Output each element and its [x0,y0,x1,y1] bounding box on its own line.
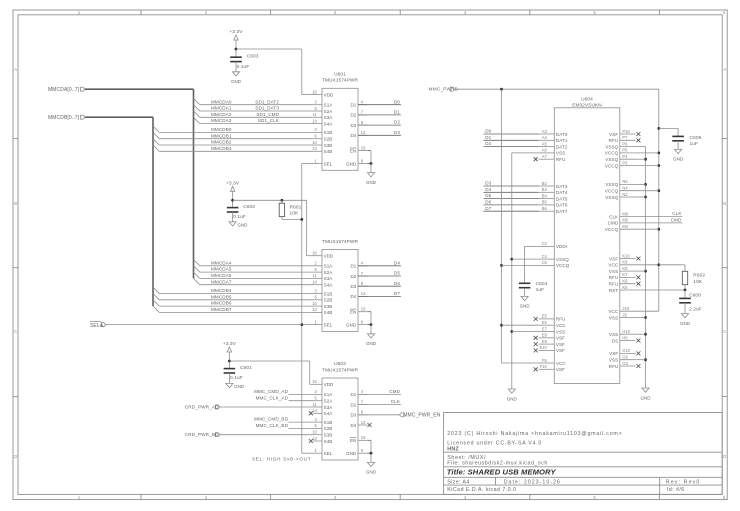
svg-text:D4: D4 [350,294,356,299]
wire chip2 GND [368,324,372,326]
wire bus entry MMCDB5 [153,294,159,300]
resistor R601 [281,199,284,202]
svg-text:P3: P3 [622,160,628,165]
svg-text:D7: D7 [485,206,491,211]
U604 pin E10 VSF [539,349,555,351]
ground U604 left VSS [507,389,517,401]
svg-text:16: 16 [312,89,317,94]
svg-text:N2: N2 [622,192,628,197]
wire left VSS rail [511,153,513,389]
svg-text:GND: GND [507,396,517,401]
svg-text:B2: B2 [542,181,548,186]
svg-text:S1B: S1B [324,130,333,135]
svg-text:CLK: CLK [672,211,682,216]
junction VSS E7 [510,330,513,333]
svg-text:M4: M4 [622,224,628,229]
wire right VSS rail [645,147,647,388]
U604 pin B6 DAT7 [539,210,555,212]
wire chip1 GND [368,163,372,165]
svg-text:13: 13 [312,307,317,312]
wire node D3 to U604 [484,185,539,187]
svg-text:P10: P10 [622,129,630,134]
svg-text:VSS: VSS [609,358,618,363]
wire U603 D2 to node CLK [358,404,401,406]
svg-text:DAT6: DAT6 [556,203,568,208]
U604 pin H10 VSS [620,333,636,335]
svg-text:E5: E5 [542,314,548,319]
svg-text:S2B: S2B [324,298,333,303]
svg-text:J5: J5 [622,312,627,317]
wire VSS pin to rail [636,359,646,361]
svg-text:VSF: VSF [556,367,565,372]
wire node D0 to U604 [484,133,539,135]
svg-text:VSF: VSF [556,348,565,353]
U604 pin N4 VCCQ [620,190,636,192]
svg-text:D4: D4 [350,423,356,428]
wire VCCQ to rail [636,165,659,167]
svg-text:S4B: S4B [324,149,333,154]
svg-text:11: 11 [313,112,318,117]
svg-text:1uF: 1uF [536,287,545,293]
svg-text:D1: D1 [394,110,400,115]
svg-text:S4B: S4B [324,310,333,315]
wire bus MMCDB horizontal [85,116,153,118]
svg-text:B6: B6 [542,206,548,211]
svg-text:VCCQ: VCCQ [605,163,619,168]
svg-text:D2: D2 [350,402,356,407]
capacitor C601 [224,365,253,381]
svg-text:K5: K5 [622,285,628,290]
node MMC_PWR_EN output label [400,413,404,417]
no-connect U603 S4B [309,439,313,443]
junction VCC rail y190.7 [657,189,660,192]
U604 pin M6 CLK [620,216,636,218]
svg-text:DAT7: DAT7 [556,209,568,214]
svg-text:G5: G5 [622,355,628,360]
svg-text:P7: P7 [622,135,628,140]
ground C604 [520,296,530,308]
svg-text:GND: GND [366,470,376,475]
svg-text:VCC: VCC [556,323,566,328]
svg-text:TMUX1574PWR: TMUX1574PWR [322,239,358,245]
capacitor C604 [519,281,548,293]
U604 pin P5 VCCQ [620,152,636,154]
svg-text:MMCDB1: MMCDB1 [211,133,232,138]
ground chip3 [366,453,376,475]
svg-text:10: 10 [312,140,317,145]
svg-text:MMCDB0: MMCDB0 [211,127,232,132]
wire bus MMCDA vertical [193,89,195,278]
wire U601 D3 to node D2 [358,124,401,126]
junction VSS rail y184.4 [644,183,647,186]
svg-text:VCC: VCC [608,309,618,314]
svg-text:S4A: S4A [324,411,333,416]
svg-text:C603: C603 [247,54,259,60]
svg-text:K10: K10 [622,253,630,258]
svg-text:Size: A4: Size: A4 [447,479,469,485]
svg-text:MMCDA6: MMCDA6 [211,273,232,278]
U604 pin K7 RFU [620,276,636,278]
svg-text:12: 12 [361,291,366,296]
svg-text:GND: GND [346,322,357,327]
wire bus MMCDA horizontal [85,88,194,90]
wire chip3 GND [368,452,372,454]
ground C602 [229,222,247,228]
svg-text:VCCQ: VCCQ [556,263,570,268]
junction MMC_PWRD to left VCC rail [500,88,503,91]
svg-text:D5: D5 [394,271,400,276]
wire chip1 EN down [368,150,372,152]
U604 pin B5 DAT6 [539,204,555,206]
wire left VCC rail [501,89,503,363]
wire MMC_CMD_BD [289,421,313,423]
wire bus entry MMCDB6 [153,300,159,306]
svg-text:K6: K6 [622,279,628,284]
U604 pin F10 VSF [539,368,555,370]
svg-text:S1B: S1B [324,420,333,425]
svg-text:B: B [723,201,726,206]
U604 pin K8 VSS [620,270,636,272]
svg-text:A5: A5 [542,141,548,146]
no-connect U604 E8 [534,336,538,340]
svg-text:GND: GND [237,223,247,228]
junction VSSQ C4 [510,258,513,261]
wire U601 D1 to node D0 [358,104,401,106]
U604 pin E9 VSF [539,343,555,345]
svg-text:MMC_CLK_BD: MMC_CLK_BD [256,423,289,428]
U604 pin A3 DAT0 [539,133,555,135]
svg-text:EN: EN [350,310,356,315]
svg-text:MMCDA7: MMCDA7 [211,279,232,284]
svg-text:P5: P5 [622,148,628,153]
wire CRD_PWR_AD [220,406,313,408]
svg-text:E10: E10 [540,345,548,350]
svg-text:CLK: CLK [609,214,618,219]
svg-text:10K: 10K [693,279,703,285]
U604 pin A6 VSS [539,152,555,154]
U604 pin M5 CMD [620,222,636,224]
ground C608 [680,314,690,326]
svg-text:K9: K9 [622,260,628,265]
svg-text:12: 12 [361,130,366,135]
svg-text:MMCDA5: MMCDA5 [211,267,232,272]
svg-text:13: 13 [312,146,317,151]
wire to C608 [684,290,686,298]
svg-text:E6: E6 [542,320,548,325]
U604 pin E6 VCC [539,324,555,326]
svg-text:2.2uF: 2.2uF [689,307,702,313]
svg-text:SD1_CLK: SD1_CLK [258,118,280,123]
svg-text:VSF: VSF [556,336,565,341]
svg-text:SEL: SEL [324,161,333,166]
svg-text:G3: G3 [622,361,628,366]
no-connect U604 K6 [636,282,640,286]
svg-text:MMC_CMD_BD: MMC_CMD_BD [254,417,289,422]
svg-text:S3B: S3B [324,433,333,438]
svg-text:GND: GND [234,384,244,389]
wire to VSS E7 [512,331,539,333]
svg-text:K8: K8 [622,266,628,271]
svg-text:10: 10 [312,301,317,306]
junction C601 +3.3V [228,360,231,363]
wire VCC K9 to rail [636,264,659,266]
no-connect U604 P10 [636,132,640,136]
junction VCC rail y165.5 [657,164,660,167]
wire U602 D1 to node D4 [358,265,401,267]
svg-text:EN: EN [350,438,356,443]
svg-text:CRD_PWR_BD: CRD_PWR_BD [185,432,220,437]
svg-text:Licensed under CC-BY-SA V4.0: Licensed under CC-BY-SA V4.0 [447,440,542,446]
svg-text:MMCDB4: MMCDB4 [211,288,232,293]
svg-text:S1A: S1A [324,264,333,269]
svg-text:D0: D0 [394,99,400,104]
svg-text:16: 16 [312,251,317,256]
wire bus entry MMCDB1 [153,132,159,138]
svg-text:DAT0: DAT0 [556,132,568,137]
svg-text:DAT5: DAT5 [556,196,568,201]
svg-text:GND: GND [640,395,650,400]
svg-text:D4: D4 [350,133,356,138]
svg-text:10K: 10K [290,211,300,217]
no-connect U604 H5 [636,339,640,343]
svg-text:Title: SHARED USB MEMORY: Title: SHARED USB MEMORY [447,468,557,477]
svg-text:MMCDB[0..7]: MMCDB[0..7] [48,115,80,121]
svg-text:GND: GND [520,304,530,309]
svg-text:D3: D3 [350,123,356,128]
svg-text:S3B: S3B [324,304,333,309]
wire bus entry MMCDB4 [153,287,159,293]
wire to VCCQ C6 [502,264,539,266]
svg-text:D3: D3 [394,130,400,135]
wire U601 D2 to node D1 [358,114,401,116]
svg-text:VSSQ: VSSQ [605,182,618,187]
wire MMC_CLK_AD [289,400,313,402]
wire RST K5 [636,289,685,291]
wire chip2 EN down [368,311,372,313]
svg-text:VCC: VCC [556,361,566,366]
svg-text:P6: P6 [622,141,628,146]
U604 pin A5 DAT2 [539,146,555,148]
svg-text:MMCDA0: MMCDA0 [211,99,232,104]
wire +3.3V to C603 [235,49,237,57]
wire VSS pin to rail [636,333,646,335]
junction VSS rail y159.2 [644,158,647,161]
U604 pin J10 VCC [620,310,636,312]
U604 pin E5 RFU [539,318,555,320]
svg-text:13: 13 [312,436,317,441]
svg-text:HNZ: HNZ [447,447,459,453]
ground C603 [231,72,241,84]
svg-text:R602: R602 [693,273,705,279]
op-amp U? : mux None TMUX1574PWR body [312,239,367,332]
svg-text:U604: U604 [581,97,593,103]
wire bus entry MMCDA2 [194,111,200,117]
svg-text:D7: D7 [394,291,400,296]
wire node D5 to U604 [484,198,539,200]
svg-text:D: D [723,454,726,459]
svg-text:VSS: VSS [556,329,565,334]
svg-text:H5: H5 [622,335,628,340]
no-connect U604 K7 [636,275,640,279]
ground U604 right VSS [640,388,650,400]
U604 pin P7 RFU [620,139,636,141]
svg-text:D4: D4 [394,260,400,265]
wire CLK out [636,216,683,218]
svg-text:RFU: RFU [556,317,566,322]
wire VSS pin to rail [636,196,646,198]
svg-text:10: 10 [312,430,317,435]
no-connect U604 G10 [636,351,640,355]
wire VCC J10 [636,310,659,312]
power +3.3V for C601/U603 [223,341,237,361]
svg-text:MMCDB6: MMCDB6 [211,301,232,306]
svg-text:VSS: VSS [609,332,618,337]
svg-text:S3A: S3A [324,405,333,410]
no-connect U604 F10 [534,367,538,371]
wire node D1 to U604 [484,139,539,141]
svg-text:RFU: RFU [609,275,619,280]
wire node D4 to U604 [484,191,539,193]
svg-text:D: D [14,454,17,459]
svg-text:SD1_CMD: SD1_CMD [256,112,279,117]
U604 pin G5 VSS [620,359,636,361]
svg-text:0.1uF: 0.1uF [230,375,243,381]
svg-text:D1: D1 [350,392,356,397]
wire bus entry MMCDA5 [194,266,200,272]
svg-text:SD1_DAT2: SD1_DAT2 [255,99,279,104]
svg-text:RFU: RFU [609,138,619,143]
wire VSS pin to rail [636,270,646,272]
wire U602 D4 to node D7 [358,295,401,297]
U604 pin C6 VCCQ [539,264,555,266]
svg-text:DAT1: DAT1 [556,138,568,143]
wire C603 to ground [235,62,237,72]
svg-text:R601: R601 [290,205,302,211]
svg-text:E8: E8 [542,333,548,338]
no-connect U604 A7 [534,157,538,161]
junction chip2 EN-GND [370,323,373,326]
svg-text:+3.3V: +3.3V [229,29,243,35]
svg-text:VSSQ: VSSQ [556,257,569,262]
wire bus entry MMCDB2 [153,139,159,145]
svg-text:GND: GND [680,321,690,326]
svg-text:C4: C4 [542,254,548,259]
U604 pin B2 DAT3 [539,185,555,187]
svg-text:VSF: VSF [556,342,565,347]
junction VCC E6 [500,324,503,327]
svg-text:C608: C608 [689,292,701,298]
U604 pin J5 VSS [620,317,636,319]
wire U602 D2 to node D5 [358,275,401,277]
ground chip1 [366,164,376,186]
junction VSS rail y334.2 [644,333,647,336]
wire chip3 EN down [368,439,372,441]
svg-text:S3B: S3B [324,143,333,148]
wire +3.3V to C602 [232,200,234,207]
svg-text:A6: A6 [542,148,548,153]
wire bus entry MMCDB3 [153,145,159,151]
svg-text:D3: D3 [350,284,356,289]
svg-text:KiCad E.D.A. kicad 7.0.0: KiCad E.D.A. kicad 7.0.0 [447,487,516,493]
wire VSS A6 [512,152,539,154]
svg-text:CMD: CMD [608,221,619,226]
svg-text:14: 14 [312,280,317,285]
svg-text:VCCQ: VCCQ [605,189,619,194]
wire C601 to ground [228,373,230,383]
svg-text:VSSQ: VSSQ [605,157,618,162]
svg-text:C605: C605 [690,135,702,141]
svg-text:U603: U603 [334,361,346,367]
svg-text:CRD_PWR_AD: CRD_PWR_AD [185,404,220,409]
svg-text:D4: D4 [485,187,491,192]
svg-text:F5: F5 [542,358,548,363]
svg-text:CMD: CMD [389,389,400,394]
wire U603 D1 to node CMD [358,393,401,395]
U604 pin B4 DAT5 [539,198,555,200]
wire VSS pin to rail [636,158,646,160]
wire to VSSQ C4 [512,258,539,260]
svg-text:MMCDA1: MMCDA1 [211,106,232,111]
U604 pin E8 VSF [539,337,555,339]
wire MMC_CMD_AD [289,393,313,395]
svg-text:CLK: CLK [391,399,401,404]
svg-text:S2B: S2B [324,137,333,142]
svg-text:VDD: VDD [324,254,334,259]
svg-text:B4: B4 [542,193,548,198]
svg-text:MMCDA4: MMCDA4 [211,260,232,265]
svg-text:A: A [14,67,17,72]
svg-text:S4A: S4A [324,283,333,288]
svg-text:D5: D5 [485,193,491,198]
svg-text:SD1_DAT3: SD1_DAT3 [255,106,279,111]
svg-text:VSF: VSF [609,351,618,356]
svg-text:D2: D2 [485,141,491,146]
svg-text:D3: D3 [485,181,491,186]
U604 pin K6 RFU [620,283,636,285]
svg-text:S2A: S2A [324,109,333,114]
wire VCCQ to rail [636,152,659,154]
wire bus entry MMCDA4 [194,260,200,266]
svg-text:S1B: S1B [324,291,333,296]
junction R601-SEL [300,218,303,221]
power +3.3V for C603/U601 [229,29,243,49]
wire SEL to U603 [302,452,313,454]
U604 pin G3 RFU [620,365,636,367]
svg-text:DAT3: DAT3 [556,184,568,189]
wire VSS pin to rail [636,183,646,185]
junction C603 +3.3V [235,48,238,51]
svg-text:File: shareusbdisk2-mux.kicad_: File: shareusbdisk2-mux.kicad_sch [447,461,548,467]
svg-text:D1: D1 [485,135,491,140]
svg-text:N4: N4 [622,186,628,191]
svg-text:A7: A7 [542,154,548,159]
U604 pin F5 VCC [539,362,555,364]
svg-text:VCCQ: VCCQ [605,227,619,232]
svg-text:MMCDB5: MMCDB5 [211,294,232,299]
svg-text:15: 15 [361,307,366,312]
no-connect U604 P7 [636,138,640,142]
svg-text:A3: A3 [542,129,548,134]
U604 pin B3 DAT4 [539,191,555,193]
svg-text:VDD: VDD [324,382,334,387]
svg-text:MMC_CMD_AD: MMC_CMD_AD [254,389,289,394]
wire C604 to ground [524,288,526,297]
wire right VCC rail [658,89,660,311]
svg-text:B3: B3 [542,187,548,192]
ground C605 [673,149,683,161]
svg-text:D0: D0 [485,129,491,134]
svg-text:+3.3V: +3.3V [226,181,240,187]
